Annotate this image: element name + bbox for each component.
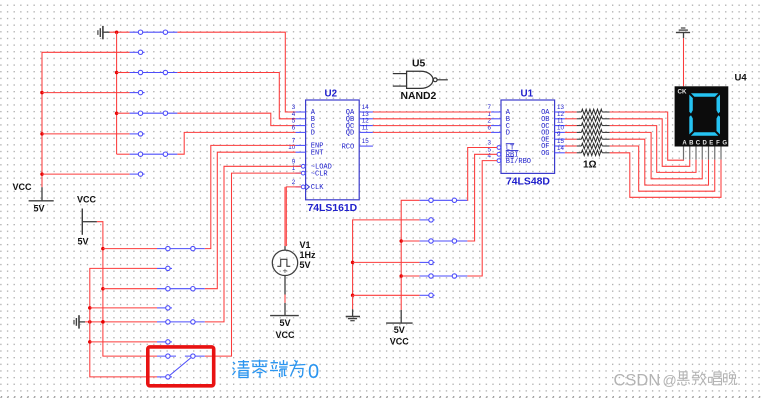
wire (683, 38, 685, 86)
nand gate U5 NAND2 (393, 59, 448, 103)
wire (177, 132, 295, 154)
node (399, 274, 403, 278)
wire (205, 152, 296, 289)
node (88, 320, 92, 324)
node (351, 261, 355, 265)
node (88, 306, 92, 310)
svg-text:C: C (696, 141, 701, 147)
decoder U1 74LS48D (488, 89, 565, 188)
wire (117, 153, 130, 155)
node (101, 287, 105, 291)
svg-text:BI/RBO: BI/RBO (506, 158, 531, 166)
svg-text:5V: 5V (279, 318, 290, 328)
wire (610, 139, 709, 185)
wire (103, 248, 157, 250)
svg-text:1Hz: 1Hz (300, 250, 317, 260)
svg-text:E: E (709, 141, 713, 147)
svg-text:D: D (702, 141, 707, 147)
wire (373, 125, 491, 127)
svg-text:D: D (506, 130, 510, 138)
wire (284, 187, 286, 246)
power VCC 5V (77, 195, 97, 247)
svg-text:D: D (311, 130, 315, 138)
throw rail (353, 220, 420, 295)
ground (676, 28, 690, 38)
wire (286, 187, 301, 246)
power VCC 5V (270, 303, 299, 340)
wire (42, 92, 130, 94)
svg-text:~CLR: ~CLR (311, 170, 329, 178)
throw rail (90, 268, 157, 377)
node (101, 320, 105, 324)
wire (373, 118, 491, 120)
wire (467, 148, 497, 201)
node (40, 172, 44, 176)
wire (42, 52, 130, 187)
wire (90, 341, 157, 343)
clock source V1 1Hz 5V (272, 240, 316, 295)
switch J10 (420, 239, 468, 265)
switch J1 (130, 30, 178, 55)
svg-text:VCC: VCC (13, 182, 33, 192)
svg-text:@: @ (663, 372, 677, 388)
svg-text:2: 2 (292, 179, 296, 186)
svg-text:1Ω: 1Ω (583, 160, 597, 171)
wire (205, 173, 301, 356)
node (115, 111, 119, 115)
seven-segment display U4 (675, 86, 729, 159)
wire (353, 261, 420, 263)
svg-text:VCC: VCC (77, 195, 97, 205)
wire (117, 72, 130, 74)
svg-text:RCO: RCO (342, 143, 355, 151)
svg-text:+: + (283, 266, 288, 276)
svg-text:6: 6 (292, 124, 296, 131)
ground (346, 295, 360, 320)
svg-text:U2: U2 (325, 89, 338, 100)
node (40, 132, 44, 136)
wire (467, 161, 497, 276)
node (115, 71, 119, 75)
switch J2 (130, 70, 178, 95)
power VCC 5V (386, 310, 413, 347)
svg-text:15: 15 (362, 138, 369, 145)
svg-text:U4: U4 (735, 73, 748, 84)
wire (467, 154, 497, 241)
wire (117, 112, 130, 114)
wire (610, 146, 715, 191)
svg-text:14: 14 (557, 145, 564, 152)
ground rail (116, 32, 118, 154)
svg-text:4: 4 (488, 153, 492, 160)
node (88, 340, 92, 344)
wire (401, 275, 419, 277)
wire (610, 153, 721, 198)
wire (284, 295, 286, 303)
power VCC 5V (13, 182, 54, 214)
wire (42, 133, 130, 135)
wire (373, 111, 491, 113)
wire (610, 132, 703, 178)
svg-text:U5: U5 (412, 59, 426, 70)
counter U2 74LS161D (288, 89, 373, 215)
watermark (614, 372, 738, 390)
node (351, 294, 355, 298)
ground (74, 315, 85, 328)
switch J7 (157, 320, 205, 344)
wire (373, 131, 491, 133)
switch J3 (130, 111, 178, 136)
svg-text:F: F (716, 141, 720, 147)
svg-text:B: B (689, 141, 694, 147)
wire (110, 31, 130, 33)
svg-text:OG: OG (541, 150, 549, 158)
wire (610, 112, 684, 160)
svg-text:VCC: VCC (390, 337, 410, 347)
svg-text:5V: 5V (78, 237, 89, 247)
node (399, 239, 403, 243)
wire (97, 222, 157, 356)
wire (177, 73, 295, 119)
svg-text:V1: V1 (300, 240, 311, 250)
svg-text:5V: 5V (394, 325, 405, 335)
svg-text:5V: 5V (300, 260, 311, 270)
svg-text:5V: 5V (34, 204, 45, 214)
svg-text:A: A (682, 141, 687, 147)
svg-text:ENT: ENT (311, 149, 324, 157)
wire (85, 321, 157, 323)
svg-text:CLK: CLK (311, 184, 324, 192)
wire (205, 145, 296, 248)
wire (90, 307, 157, 309)
switch J8 (clear, thrown) (157, 354, 205, 379)
node (101, 247, 105, 251)
node (115, 30, 119, 34)
svg-text:U1: U1 (521, 89, 534, 100)
svg-text:G: G (722, 141, 727, 147)
svg-text:VCC: VCC (275, 330, 295, 340)
node (101, 320, 105, 324)
svg-text:74LS48D: 74LS48D (506, 176, 550, 187)
svg-text:CSDN: CSDN (614, 372, 661, 390)
resistor pack 1 Ohm (565, 109, 610, 170)
svg-text:0: 0 (308, 361, 319, 383)
label U4 (735, 73, 748, 84)
wire (205, 166, 301, 322)
wire (353, 294, 420, 296)
highlight box (148, 347, 214, 386)
wire (401, 200, 419, 310)
wire (103, 288, 157, 290)
switch J11 (420, 274, 468, 298)
annotation text (233, 360, 320, 384)
wire (177, 113, 295, 125)
svg-text:74LS161D: 74LS161D (308, 203, 358, 214)
switch J6 (157, 287, 205, 311)
svg-text:11: 11 (362, 124, 369, 131)
wire (177, 32, 295, 112)
node (40, 91, 44, 95)
switch J9 (420, 198, 468, 222)
svg-text:CK: CK (678, 89, 687, 96)
svg-text:QD: QD (346, 130, 354, 138)
switch J4 (130, 152, 178, 176)
wire (42, 173, 130, 175)
switch J5 (157, 246, 205, 270)
wire (610, 119, 690, 167)
ground (98, 26, 110, 39)
wire (401, 240, 419, 242)
svg-text:NAND2: NAND2 (401, 91, 437, 102)
wire (610, 126, 696, 173)
